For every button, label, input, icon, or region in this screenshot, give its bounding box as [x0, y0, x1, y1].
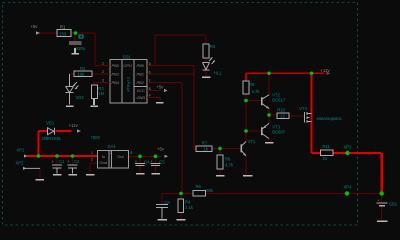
photodiode VD2 — [66, 87, 74, 93]
svg-text:VT1: VT1 — [248, 139, 256, 144]
svg-text:+12v: +12v — [321, 68, 331, 73]
node battery — [380, 191, 384, 195]
wire VD1 anode — [39, 130, 48, 132]
wire 7805 gnd stub — [90, 163, 98, 173]
capacitor C4 — [135, 163, 145, 165]
node rail VT2 — [267, 72, 271, 76]
svg-text:C2: C2 — [74, 159, 80, 164]
transistor VT2 — [261, 97, 263, 105]
node VT2 base — [244, 99, 248, 103]
svg-text:C4: C4 — [144, 160, 150, 165]
pin XP1 — [21, 154, 28, 157]
ground GB1 — [377, 220, 388, 222]
node VT3 base — [244, 129, 248, 133]
svg-text:2: 2 — [91, 158, 93, 162]
svg-text:7805: 7805 — [91, 135, 101, 140]
node XP4 — [345, 191, 349, 195]
wire riser x182 to lower bus — [181, 83, 183, 194]
wire PB2 row — [147, 82, 182, 84]
ground C1 — [72, 48, 80, 54]
svg-text:C6: C6 — [164, 200, 170, 205]
svg-text:инвалидовоз: инвалидовоз — [317, 116, 342, 121]
node C5 — [154, 155, 158, 159]
svg-text:R6: R6 — [210, 44, 216, 49]
wire C1p C2p drops — [57, 156, 73, 165]
node lower bus R12 — [179, 192, 183, 196]
svg-text:6: 6 — [149, 70, 151, 74]
capacitor C1p — [52, 165, 62, 174]
svg-text:CPU: CPU — [124, 63, 133, 68]
wire VT2 base — [246, 100, 261, 102]
wire node A to C1 — [74, 33, 76, 48]
resistor R1 — [57, 30, 71, 37]
wire C4 C5 drops — [140, 156, 156, 172]
svg-text:C1: C1 — [59, 159, 65, 164]
wire R8 pulldown stubs — [219, 149, 221, 175]
svg-text:R4: R4 — [185, 199, 191, 204]
ground symbols — [36, 48, 388, 221]
svg-text:VCC: VCC — [137, 88, 145, 93]
svg-text:XP4: XP4 — [344, 185, 353, 190]
svg-text:DA1: DA1 — [108, 144, 117, 149]
svg-text:VD1: VD1 — [46, 120, 55, 125]
node R7-VT1 — [218, 147, 222, 151]
wire C6 drop — [161, 193, 163, 204]
svg-text:GB1: GB1 — [389, 201, 398, 206]
wire emitters node — [269, 109, 277, 124]
node XP3 — [345, 151, 349, 155]
wire PB0 row — [147, 65, 194, 67]
wire PB1 row — [147, 73, 194, 75]
svg-text:+12v: +12v — [69, 123, 79, 128]
wire top run to R6 — [155, 35, 206, 77]
node XP1-VD1 — [37, 154, 41, 158]
svg-text:HL1: HL1 — [214, 71, 222, 76]
wire lower bus right of shunt — [206, 192, 382, 194]
resistor R12 — [178, 199, 184, 213]
node C2p — [71, 154, 75, 158]
resistor R2 — [74, 71, 92, 77]
svg-text:R2: R2 — [80, 66, 86, 71]
svg-text:Gnd: Gnd — [100, 160, 108, 165]
ground R12 — [177, 219, 186, 221]
resistor R9 pullup — [243, 81, 249, 94]
node R1-C1 — [74, 31, 78, 35]
svg-text:+5v: +5v — [31, 24, 39, 29]
ground VD2 — [66, 105, 74, 107]
svg-text:2,1k: 2,1k — [185, 205, 194, 210]
svg-text:C5: C5 — [159, 160, 165, 165]
svg-text:2: 2 — [102, 70, 104, 74]
mosfet VT4 — [303, 112, 305, 123]
pin +5v at DA1 out — [162, 155, 169, 158]
pin +5v at VCC — [161, 89, 168, 92]
diode VD1 — [48, 128, 55, 135]
svg-text:PB0: PB0 — [112, 63, 120, 68]
ground C5 — [152, 173, 161, 175]
capacitor C6 — [156, 205, 168, 219]
svg-text:1: 1 — [91, 151, 93, 155]
svg-text:PB2: PB2 — [137, 80, 145, 85]
svg-text:MBR1045: MBR1045 — [42, 136, 61, 141]
svg-text:XP1: XP1 — [17, 147, 26, 152]
transistor VT1 — [240, 144, 242, 152]
wire PB3 row to R2 — [69, 73, 110, 75]
svg-text:PB1: PB1 — [137, 72, 144, 77]
svg-text:R5: R5 — [196, 184, 202, 189]
svg-text:1: 1 — [102, 61, 104, 65]
capacitor C2p — [68, 165, 78, 174]
wire +12V rail — [246, 73, 324, 81]
svg-text:PB0: PB0 — [137, 63, 145, 68]
ground C2p — [69, 174, 78, 176]
ground DA1 — [86, 174, 95, 176]
wire XP2 drop — [39, 168, 41, 178]
svg-text:XP3: XP3 — [344, 144, 353, 149]
resistor R3 — [92, 85, 98, 98]
svg-text:150: 150 — [59, 32, 67, 37]
wire base chain verticals — [245, 94, 247, 141]
svg-text:R8: R8 — [225, 157, 231, 162]
svg-text:5: 5 — [149, 62, 151, 66]
resistor R8 pulldown — [217, 155, 223, 169]
svg-text:PB4: PB4 — [112, 80, 120, 85]
wire 7805 out rail — [129, 155, 162, 157]
wire riser to VD1 — [37, 131, 39, 156]
svg-text:GND: GND — [137, 95, 146, 100]
ground C1p — [53, 174, 62, 176]
pin +5V top left — [33, 31, 41, 34]
ground HL1 — [202, 76, 211, 78]
pin +12v after VD1 — [72, 129, 81, 132]
svg-text:R10: R10 — [277, 108, 285, 113]
wire VT3 collector drop — [268, 139, 270, 142]
ground XP2 — [36, 179, 45, 181]
battery GB1 — [377, 202, 388, 204]
svg-text:50k: 50k — [206, 188, 214, 193]
svg-text:R11: R11 — [323, 144, 331, 149]
svg-text:220u: 220u — [76, 46, 86, 51]
node emitters — [267, 113, 271, 117]
ground VT1 — [243, 175, 253, 177]
svg-text:Out: Out — [117, 154, 124, 159]
pin +12V top right — [324, 72, 331, 75]
svg-text:8: 8 — [149, 87, 151, 91]
wire power bus drain — [312, 73, 321, 153]
svg-text:R7: R7 — [202, 140, 208, 145]
svg-text:1M: 1M — [98, 91, 104, 96]
svg-text:BC817: BC817 — [272, 98, 285, 103]
wire riser to LED feed — [154, 35, 156, 66]
wire R1 out to node A — [71, 33, 110, 66]
svg-text:DD1: DD1 — [123, 55, 132, 60]
pin XP2 — [20, 167, 27, 170]
capacitor C5 — [151, 163, 161, 165]
svg-text:3: 3 — [130, 151, 132, 155]
ground R3 — [91, 99, 99, 107]
svg-text:4,7k: 4,7k — [225, 163, 234, 168]
ground DD1 — [156, 102, 164, 104]
svg-text:4,7k: 4,7k — [252, 89, 261, 94]
wire +5V to R1 — [39, 32, 57, 34]
svg-text:+5v: +5v — [157, 84, 165, 89]
wire R11 out to battery — [333, 153, 382, 193]
transistor VT3 — [261, 127, 263, 135]
ground C6 — [158, 219, 168, 221]
IC DD1 — [105, 60, 153, 104]
svg-text:VD2: VD2 — [76, 95, 85, 100]
led HL1 — [203, 63, 210, 71]
node C4 — [138, 155, 142, 159]
resistor R11 — [321, 150, 334, 156]
svg-text:22: 22 — [323, 156, 328, 161]
svg-text:VT4: VT4 — [299, 106, 307, 111]
svg-text:+5v: +5v — [157, 146, 165, 151]
wire R12 drop — [180, 193, 182, 218]
wire VD1 cathode to +12v pin — [56, 130, 72, 132]
svg-text:R9: R9 — [249, 82, 255, 87]
resistor R5 shunt — [193, 191, 206, 197]
wire R7 to VT1 base — [212, 147, 241, 149]
wire GND pin — [147, 97, 160, 101]
node C1p — [55, 154, 59, 158]
resistor R6 — [203, 44, 209, 58]
wire R10 to gate — [289, 115, 304, 117]
svg-text:In: In — [102, 154, 105, 159]
wire XP1 feed bus — [27, 155, 98, 157]
svg-text:4: 4 — [149, 94, 151, 98]
svg-text:R1: R1 — [60, 25, 66, 30]
wire battery stubs — [381, 193, 383, 219]
wire VT3 base — [246, 130, 261, 132]
svg-text:7: 7 — [149, 79, 151, 83]
wire VT2 collector riser — [268, 73, 270, 94]
regulator DA1 7805 — [98, 151, 129, 169]
svg-text:PB3: PB3 — [112, 72, 120, 77]
wire VCC pin — [147, 90, 161, 92]
ground C4 — [136, 173, 145, 175]
svg-text:BC807: BC807 — [272, 130, 285, 135]
svg-text:3: 3 — [102, 78, 104, 82]
ground R8 — [216, 175, 225, 177]
wire VT1 collector/emitter — [245, 157, 247, 175]
wire riser x194 to R7 — [194, 66, 196, 149]
supply pin arrows — [20, 31, 331, 170]
node rail bus — [310, 72, 314, 76]
wire lower bus left of shunt — [162, 192, 193, 194]
svg-text:ATtiny13: ATtiny13 — [127, 77, 131, 92]
svg-text:10k: 10k — [78, 72, 86, 77]
svg-text:2: 2 — [110, 151, 112, 155]
wire PB4 row to R3 — [94, 83, 110, 86]
svg-text:XP2: XP2 — [16, 160, 25, 165]
svg-text:22: 22 — [280, 113, 285, 118]
capacitor C1 — [69, 42, 82, 44]
ground VT3 — [265, 142, 274, 144]
resistor R7 — [196, 146, 212, 152]
resistor R10 — [277, 113, 289, 119]
